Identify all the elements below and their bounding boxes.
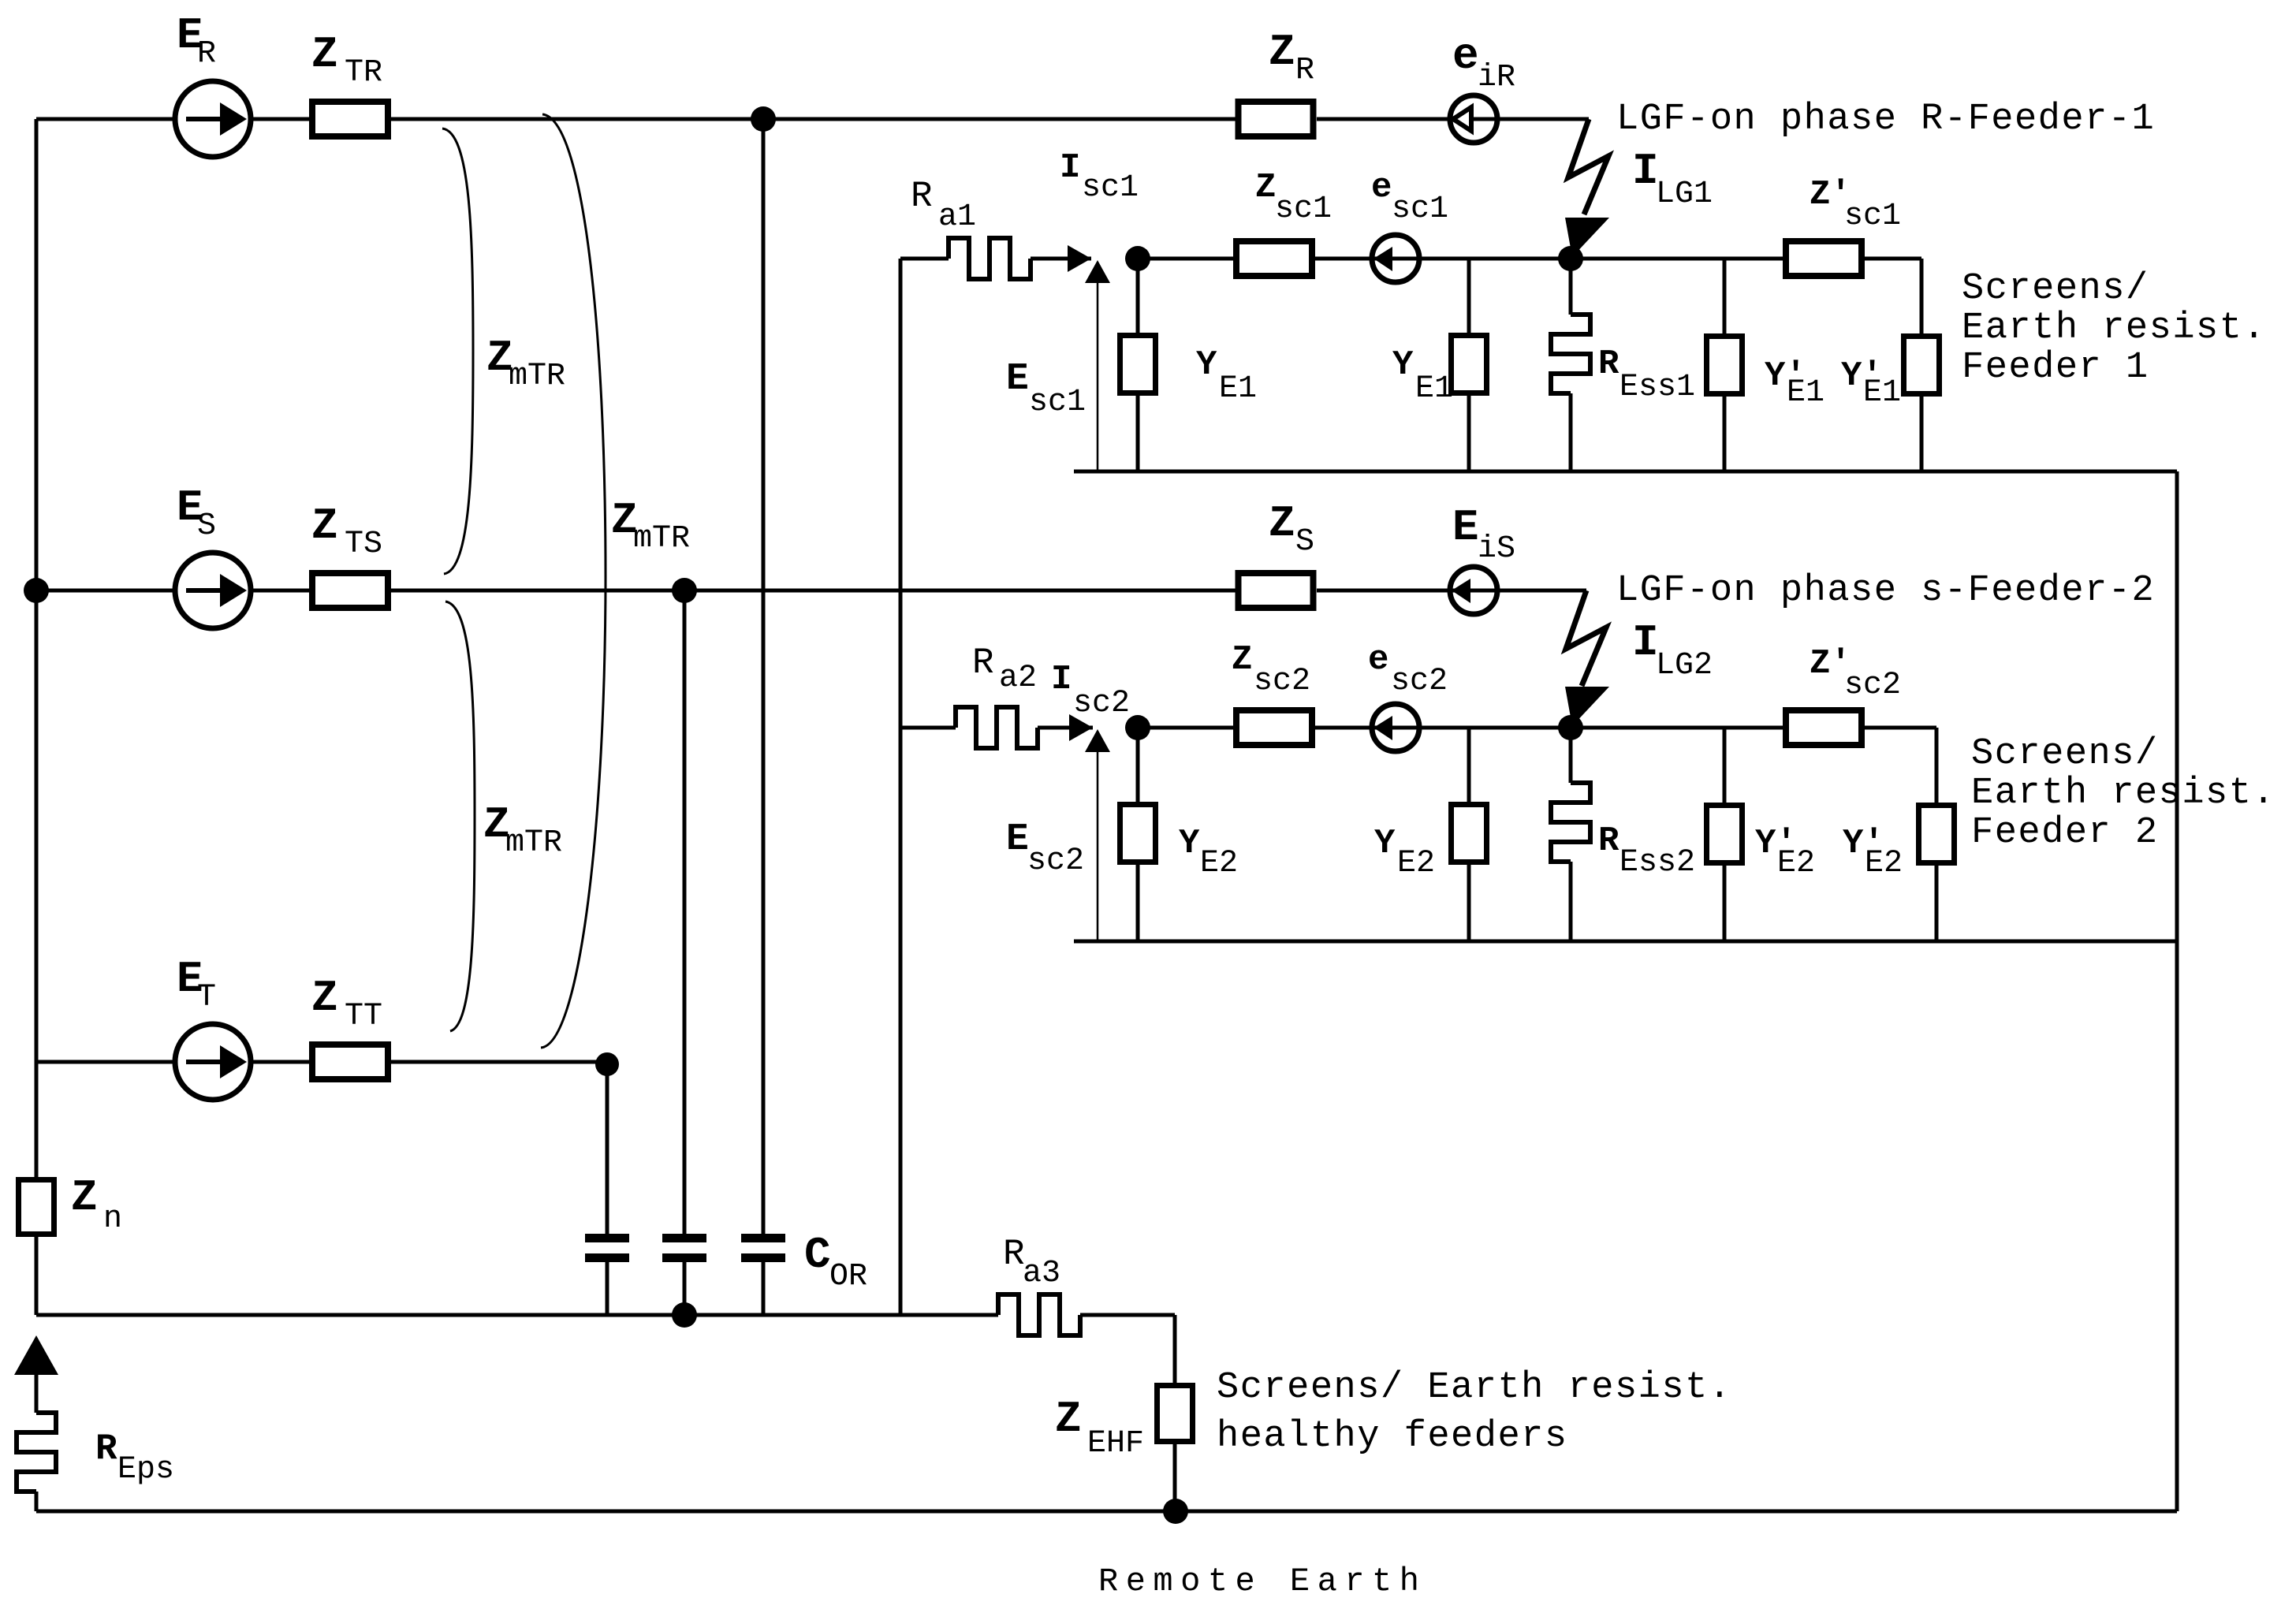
- svg-text:n: n: [103, 1201, 122, 1237]
- svg-text:Y: Y: [1196, 345, 1217, 385]
- svg-text:Screens/ Earth resist.: Screens/ Earth resist.: [1217, 1367, 1732, 1409]
- svg-text:Earth resist.: Earth resist.: [1962, 307, 2266, 349]
- svg-text:TR: TR: [345, 55, 382, 91]
- svg-text:Screens/: Screens/: [1962, 268, 2149, 310]
- svg-text:E: E: [1006, 818, 1029, 861]
- svg-text:R: R: [972, 642, 994, 683]
- svg-text:Z: Z: [1255, 168, 1276, 207]
- svg-text:Z: Z: [1055, 1394, 1082, 1444]
- svg-text:E2: E2: [1865, 846, 1903, 881]
- svg-text:Z: Z: [1232, 640, 1252, 680]
- svg-text:E2: E2: [1777, 846, 1815, 881]
- svg-text:Ess2: Ess2: [1619, 845, 1695, 881]
- svg-text:R: R: [1598, 345, 1619, 384]
- svg-text:LGF-on phase R-Feeder-1: LGF-on phase R-Feeder-1: [1616, 99, 2155, 140]
- svg-text:Z: Z: [311, 501, 338, 551]
- svg-text:sc2: sc2: [1027, 844, 1084, 879]
- svg-text:sc1: sc1: [1392, 192, 1448, 227]
- svg-text:LGF-on phase s-Feeder-2: LGF-on phase s-Feeder-2: [1616, 570, 2155, 612]
- svg-text:E2: E2: [1397, 846, 1435, 881]
- svg-text:E2: E2: [1200, 846, 1238, 881]
- svg-text:e: e: [1452, 31, 1479, 81]
- svg-text:LG2: LG2: [1656, 648, 1713, 683]
- svg-text:sc2: sc2: [1073, 686, 1130, 721]
- svg-text:e: e: [1368, 640, 1388, 680]
- svg-text:E1: E1: [1863, 375, 1901, 411]
- svg-text:Feeder 2: Feeder 2: [1971, 812, 2159, 854]
- svg-text:Earth resist.: Earth resist.: [1971, 773, 2275, 814]
- svg-text:e: e: [1371, 168, 1392, 207]
- svg-text:R: R: [95, 1428, 117, 1469]
- svg-text:Remote Earth: Remote Earth: [1098, 1562, 1426, 1600]
- svg-text:E1: E1: [1219, 371, 1257, 407]
- svg-text:I: I: [1632, 617, 1659, 668]
- svg-text:Screens/: Screens/: [1971, 733, 2159, 775]
- svg-text:Z: Z: [1269, 498, 1295, 549]
- svg-text:E1: E1: [1787, 375, 1824, 411]
- svg-text:Z: Z: [311, 973, 338, 1023]
- svg-text:iR: iR: [1478, 60, 1515, 95]
- svg-text:R: R: [197, 36, 216, 72]
- svg-text:TS: TS: [345, 527, 382, 562]
- svg-text:sc1: sc1: [1844, 199, 1901, 234]
- svg-text:Z: Z: [71, 1172, 98, 1223]
- svg-text:a2: a2: [999, 661, 1037, 696]
- svg-text:LG1: LG1: [1656, 177, 1713, 212]
- svg-text:TT: TT: [345, 999, 382, 1034]
- svg-text:R: R: [1598, 821, 1619, 861]
- svg-text:I: I: [1632, 146, 1659, 196]
- svg-text:Z: Z: [1269, 27, 1295, 77]
- svg-text:Y: Y: [1392, 345, 1414, 385]
- svg-text:healthy feeders: healthy feeders: [1217, 1416, 1568, 1458]
- svg-text:R: R: [1003, 1234, 1025, 1275]
- svg-text:sc1: sc1: [1082, 170, 1139, 206]
- svg-text:sc2: sc2: [1844, 668, 1901, 703]
- svg-text:R: R: [1295, 53, 1314, 88]
- svg-text:E: E: [1006, 358, 1029, 400]
- svg-text:Z: Z: [311, 29, 338, 80]
- svg-text:sc1: sc1: [1029, 385, 1086, 420]
- svg-text:R: R: [911, 176, 933, 217]
- svg-text:Y: Y: [1179, 824, 1200, 863]
- svg-text:mTR: mTR: [633, 521, 690, 557]
- svg-text:S: S: [1295, 524, 1314, 560]
- svg-text:Feeder 1: Feeder 1: [1962, 347, 2149, 389]
- svg-text:I: I: [1060, 148, 1080, 188]
- svg-text:a3: a3: [1023, 1256, 1060, 1291]
- svg-text:E: E: [1452, 502, 1479, 553]
- svg-text:S: S: [197, 508, 216, 544]
- svg-text:OR: OR: [829, 1259, 867, 1294]
- svg-text:sc2: sc2: [1391, 664, 1448, 699]
- svg-text:E1: E1: [1415, 371, 1453, 407]
- svg-text:I: I: [1051, 660, 1072, 699]
- svg-text:EHF: EHF: [1087, 1426, 1144, 1462]
- svg-text:sc1: sc1: [1275, 192, 1332, 227]
- svg-text:Y: Y: [1374, 824, 1396, 863]
- svg-text:sc2: sc2: [1254, 664, 1310, 699]
- svg-text:mTR: mTR: [509, 359, 565, 394]
- svg-text:T: T: [197, 980, 216, 1015]
- svg-text:iS: iS: [1478, 531, 1515, 567]
- svg-text:mTR: mTR: [505, 825, 562, 861]
- svg-text:a1: a1: [938, 199, 976, 235]
- svg-text:Ess1: Ess1: [1619, 370, 1695, 405]
- svg-text:Eps: Eps: [117, 1452, 174, 1488]
- svg-text:C: C: [804, 1230, 831, 1280]
